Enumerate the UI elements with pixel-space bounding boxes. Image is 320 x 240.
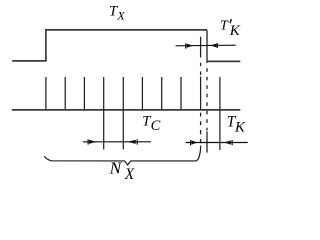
svg-text:K: K	[229, 23, 241, 39]
svg-text:N: N	[109, 159, 123, 178]
svg-text:C: C	[151, 118, 161, 134]
svg-text:X: X	[116, 8, 125, 22]
svg-text:X: X	[124, 166, 135, 183]
svg-text:K: K	[234, 119, 246, 135]
svg-text:T: T	[220, 19, 229, 34]
